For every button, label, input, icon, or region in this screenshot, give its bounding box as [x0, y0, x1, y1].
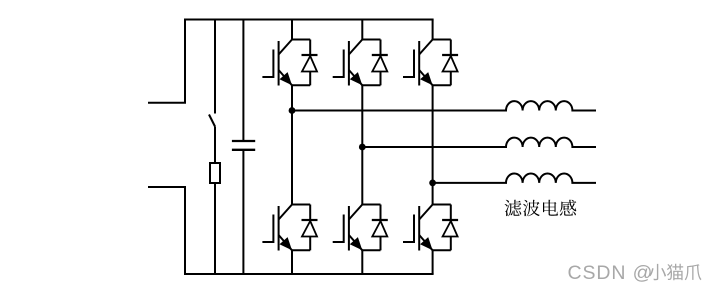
svg-text:CSDN @: CSDN @ [568, 262, 654, 284]
